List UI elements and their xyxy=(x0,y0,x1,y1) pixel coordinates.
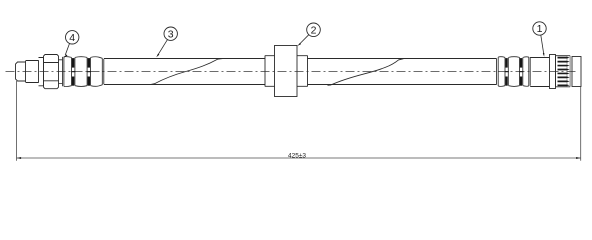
node end cap xyxy=(572,57,581,87)
node body of left fitting xyxy=(26,60,39,82)
wire extension line right xyxy=(580,87,582,161)
svg-text:1: 1 xyxy=(537,23,543,35)
wire lay line S-curve right xyxy=(328,59,404,86)
balloon 3 xyxy=(156,27,177,57)
node middle grommet right collar xyxy=(297,56,308,87)
node middle grommet block xyxy=(275,46,298,97)
ferrule left crimp sleeve xyxy=(63,57,104,87)
node tip of left fitting xyxy=(16,61,26,82)
node right fitting cylinder xyxy=(530,58,549,87)
node right fitting flange xyxy=(550,55,556,89)
centerline xyxy=(6,71,578,73)
wire dimension line 425±3 xyxy=(17,157,581,159)
balloon 4 xyxy=(64,31,79,58)
svg-text:2: 2 xyxy=(311,24,317,36)
wire neck between nut and ferrule xyxy=(59,60,63,84)
node dim arrow left xyxy=(17,157,21,159)
node dim arrow right xyxy=(576,157,580,159)
balloon 2 xyxy=(297,23,320,46)
node fir-tree retainer xyxy=(556,56,571,87)
wire extension line left xyxy=(16,81,18,161)
balloon 1 xyxy=(533,22,546,57)
svg-text:4: 4 xyxy=(69,32,75,44)
node crimp groove bars right xyxy=(505,58,523,86)
wire hose segment right xyxy=(308,59,497,85)
node hex nut xyxy=(44,55,59,89)
node crimp groove bars left xyxy=(71,58,91,86)
wire hose segment left xyxy=(104,59,265,85)
svg-text:425±3: 425±3 xyxy=(288,152,306,159)
ferrule right crimp sleeve xyxy=(497,57,531,87)
svg-text:3: 3 xyxy=(168,28,174,40)
node middle grommet left collar xyxy=(265,56,275,87)
node washer xyxy=(39,57,44,86)
wire lay line S-curve left xyxy=(151,59,223,85)
